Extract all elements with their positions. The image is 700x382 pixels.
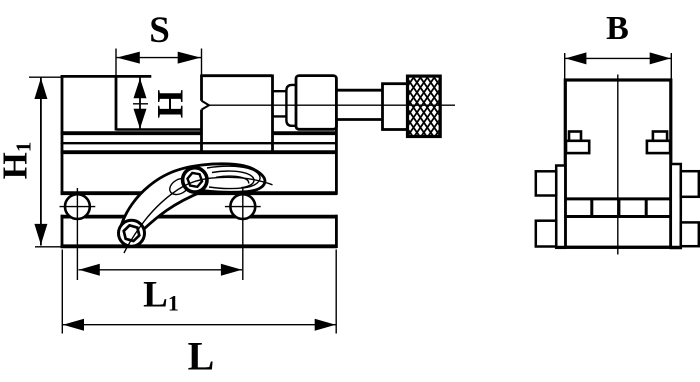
H1 top extension line — [29, 76, 62, 78]
H down arrowhead — [134, 109, 147, 129]
fixed jaw top edge (with H extension to right) — [61, 75, 152, 78]
movable jaw right face — [271, 75, 274, 151]
left clamp bar — [556, 166, 565, 248]
upper pivot hex socket — [186, 172, 203, 187]
slide bottom edge — [61, 191, 337, 195]
base bottom edge — [61, 244, 337, 248]
screw collar small (rounded) — [286, 85, 296, 126]
cam profile ellipse — [167, 175, 192, 198]
right jaw step large — [647, 141, 670, 153]
L extension lines — [62, 250, 336, 334]
movable jaw top edge — [202, 74, 273, 77]
bed line A — [61, 142, 337, 144]
jaw opening floor — [116, 128, 202, 130]
svg-text:B: B — [606, 10, 629, 47]
left jaw step large — [566, 141, 589, 153]
movable jaw left face (broken by screw tip chevron) — [200, 75, 203, 151]
L right arrowhead — [315, 319, 336, 331]
handle shading contour 3 — [216, 176, 249, 183]
B extension lines — [565, 53, 672, 79]
base top edge — [61, 215, 337, 219]
screw collar at knob — [383, 84, 408, 130]
left jaw step small — [569, 132, 581, 141]
left clamp upper square — [536, 171, 556, 195]
S extension lines — [116, 49, 202, 77]
rail band divider 2 — [617, 199, 620, 217]
end view bottom edge — [556, 246, 681, 249]
L left arrowhead — [63, 319, 84, 331]
cam lever body (narrow curved strap + handle capsule) — [122, 164, 265, 229]
lower pivot hex socket — [122, 224, 141, 242]
B dimension line — [565, 57, 672, 59]
upper pivot boss — [183, 168, 207, 192]
H1 bottom extension line — [35, 246, 62, 248]
lever centerline arc through pivots — [124, 177, 273, 253]
right clamp upper square — [681, 171, 699, 197]
screw tip chevron on jaw face — [202, 101, 210, 110]
handle shading contour 1 — [207, 166, 260, 188]
H1 up arrowhead — [34, 78, 47, 99]
screw shaft — [336, 90, 382, 119]
bed top surface line — [61, 131, 337, 135]
svg-text:S: S — [149, 10, 170, 51]
lower pivot boss — [119, 220, 145, 246]
S right arrowhead — [178, 52, 201, 64]
end view vertical centerline — [617, 75, 619, 255]
handle shading contour 2 — [212, 171, 254, 188]
right jaw step small — [653, 132, 667, 141]
left roller — [65, 194, 90, 219]
rail band middle line — [565, 215, 671, 218]
B left arrowhead — [565, 52, 586, 64]
screw bearing block — [296, 76, 336, 130]
knurled knob — [398, 15, 444, 190]
bed line B (slide top) — [61, 150, 337, 154]
screw stub shaft — [273, 91, 287, 116]
svg-text:H: H — [151, 89, 192, 118]
right roller — [230, 194, 255, 219]
L dimension line — [62, 324, 336, 326]
B right arrowhead — [650, 52, 671, 64]
L1 right arrowhead — [221, 264, 242, 276]
S left arrowhead — [117, 52, 140, 64]
L1 dimension line — [79, 269, 243, 271]
rail band divider 1 — [590, 199, 593, 217]
right roller crosshair — [225, 188, 261, 280]
body left edge — [61, 75, 64, 248]
rail band top line — [565, 197, 671, 200]
svg-text:L: L — [188, 334, 215, 379]
H up arrowhead — [134, 78, 147, 98]
end view body outline — [565, 80, 671, 247]
right clamp lower square — [681, 222, 699, 246]
H1 down arrowhead — [34, 224, 47, 245]
right clamp bar — [671, 164, 681, 248]
H1 dimension line — [40, 77, 42, 245]
rail band divider 3 — [645, 199, 648, 217]
left clamp lower square — [536, 221, 556, 247]
left roller crosshair — [60, 188, 96, 280]
screw centerline — [133, 104, 455, 105]
fixed jaw right face — [115, 76, 118, 131]
H dimension line — [139, 78, 141, 129]
body right edge — [335, 120, 338, 249]
S dimension line — [116, 57, 202, 59]
L1 left arrowhead — [79, 264, 100, 276]
